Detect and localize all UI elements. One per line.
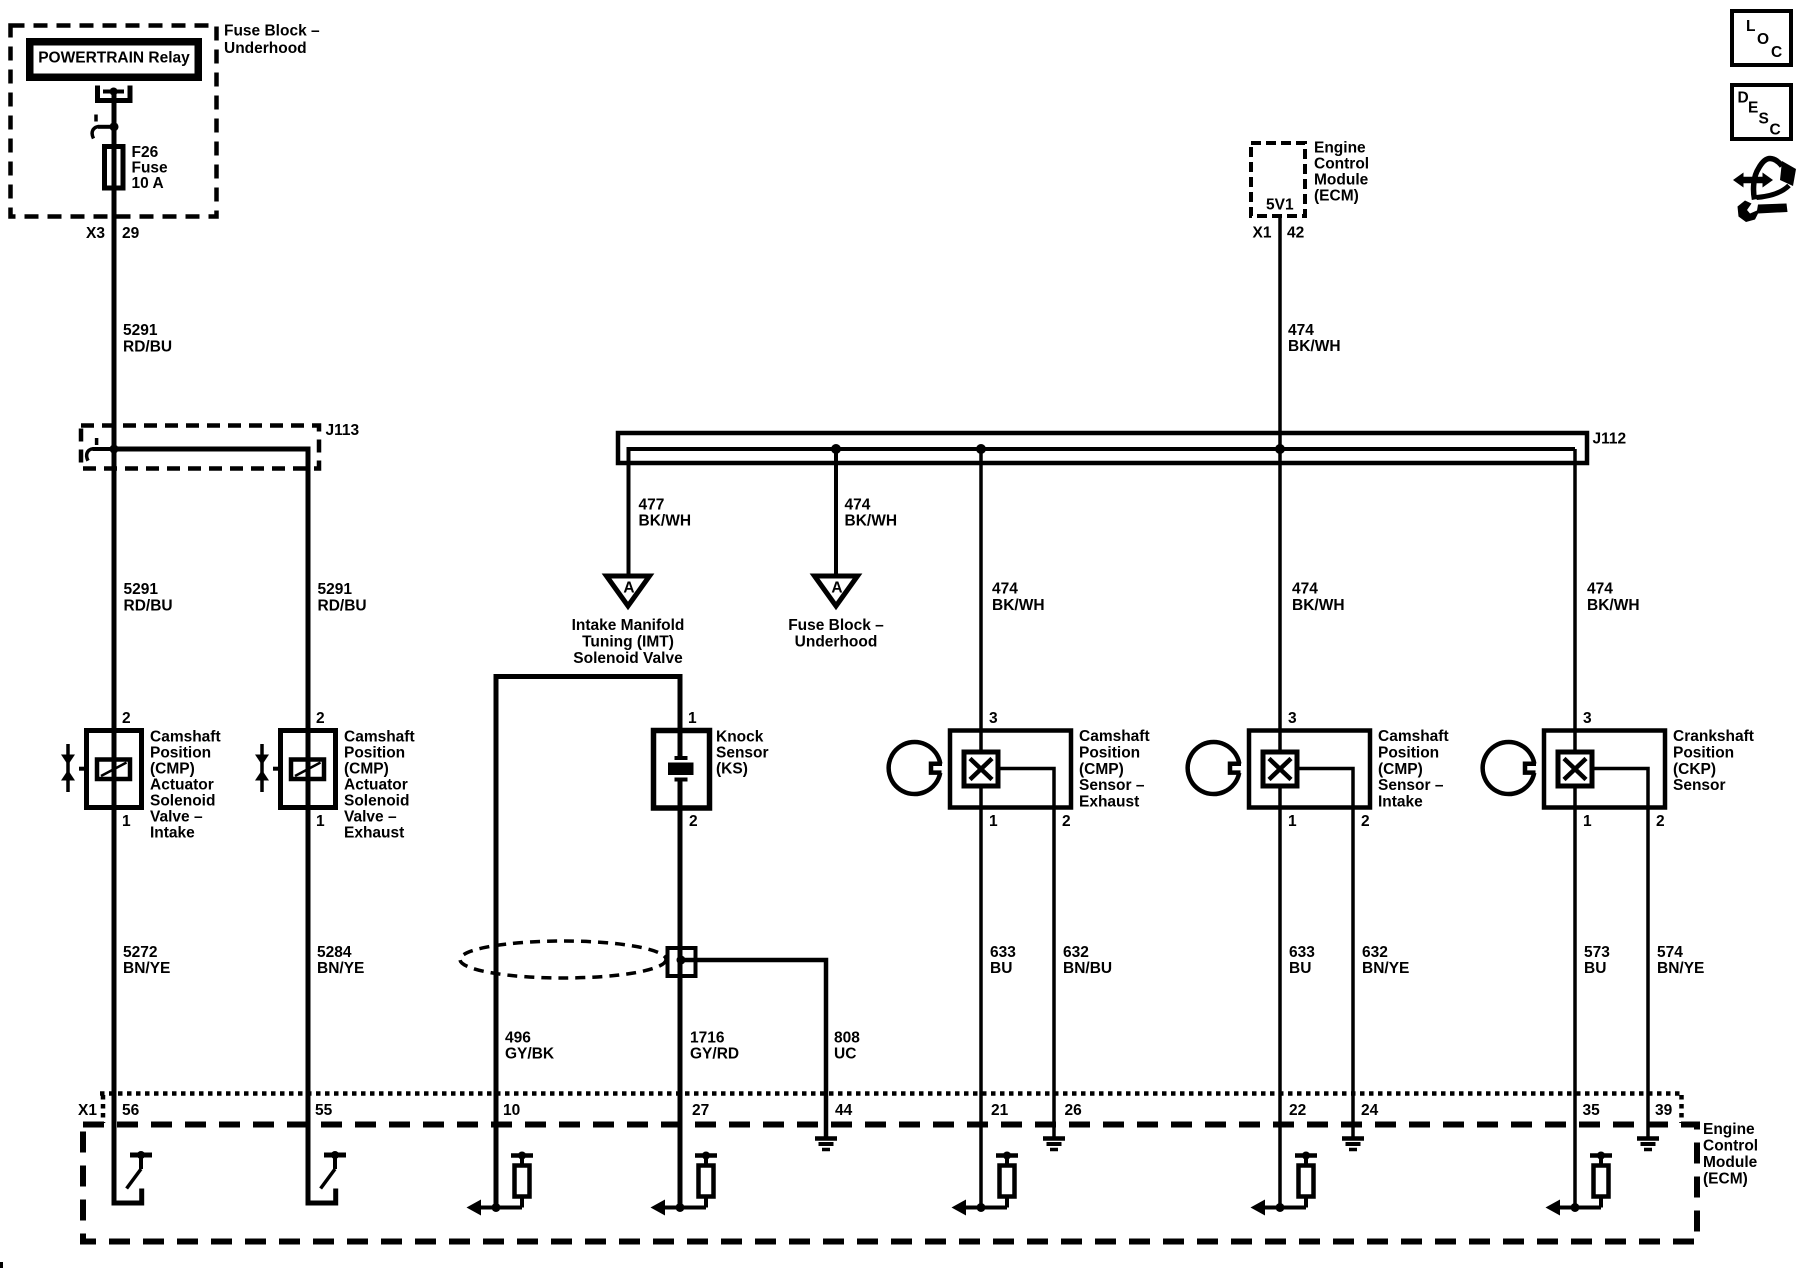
relay contact symbol: [98, 86, 131, 101]
svg-text:BN/YE: BN/YE: [1362, 960, 1409, 977]
svg-text:10: 10: [503, 1102, 520, 1119]
label: Engine Control Module (ECM) bottom: [1703, 1121, 1758, 1188]
svg-text:Sensor –: Sensor –: [1378, 777, 1444, 794]
svg-text:Actuator: Actuator: [150, 777, 214, 794]
label 474 BK/WH fuse block: [845, 497, 898, 530]
svg-text:L: L: [1746, 18, 1755, 35]
svg-text:2: 2: [689, 813, 698, 830]
relay output inline terminal: [92, 115, 118, 139]
svg-text:3: 3: [1288, 710, 1297, 727]
svg-text:Engine: Engine: [1703, 1121, 1755, 1138]
svg-text:Sensor: Sensor: [716, 745, 769, 762]
svg-text:Intake Manifold: Intake Manifold: [572, 617, 685, 634]
svg-text:(CMP): (CMP): [150, 761, 195, 778]
svg-text:5272: 5272: [123, 944, 157, 961]
svg-text:Knock: Knock: [716, 729, 764, 746]
svg-text:5284: 5284: [317, 944, 352, 961]
svg-text:Fuse Block –: Fuse Block –: [788, 617, 884, 634]
label 1716 GY/RD: [690, 1030, 739, 1063]
svg-text:BU: BU: [1584, 960, 1606, 977]
svg-text:1: 1: [1288, 813, 1297, 830]
label: Fuse Block - Underhood: [224, 23, 320, 57]
svg-text:Fuse Block –: Fuse Block –: [224, 23, 320, 40]
label 496 GY/BK: [505, 1030, 555, 1063]
CKP sensor: reluctor circle: [1483, 742, 1536, 794]
label 5291 RD/BU left branch: [124, 581, 173, 615]
drain wire 808 UC: [681, 960, 826, 1137]
svg-text:A: A: [831, 580, 842, 597]
off-page triangle A to fuse block: [815, 576, 858, 606]
svg-text:Position: Position: [1673, 745, 1734, 762]
svg-text:(CMP): (CMP): [344, 761, 389, 778]
CMP sensor exhaust: reluctor circle: [889, 742, 942, 794]
svg-text:BK/WH: BK/WH: [1288, 338, 1341, 355]
wire from relay to fuse: [112, 92, 117, 147]
svg-text:BU: BU: [990, 960, 1012, 977]
svg-text:Actuator: Actuator: [344, 777, 408, 794]
scan mark bottom left: [0, 1262, 3, 1268]
svg-text:2: 2: [1656, 813, 1665, 830]
label 5291 RD/BU top: [123, 322, 172, 356]
svg-text:633: 633: [990, 944, 1016, 961]
label 474 BK/WH exhaust sensor: [992, 581, 1045, 615]
svg-text:2: 2: [1361, 813, 1370, 830]
svg-text:Underhood: Underhood: [224, 40, 307, 57]
svg-text:BU: BU: [1289, 960, 1311, 977]
label: Engine Control Module (ECM) top: [1314, 140, 1369, 205]
svg-text:632: 632: [1063, 944, 1089, 961]
svg-text:(ECM): (ECM): [1703, 1171, 1748, 1188]
svg-text:574: 574: [1657, 944, 1683, 961]
DESC icon box: [1732, 85, 1791, 139]
label: Knock Sensor (KS): [716, 729, 769, 778]
shield ellipse: [460, 941, 666, 978]
svg-text:BK/WH: BK/WH: [845, 513, 898, 530]
wire 5291 RD/BU main feed: [112, 147, 117, 1094]
svg-text:44: 44: [835, 1102, 853, 1119]
svg-text:BK/WH: BK/WH: [639, 513, 692, 530]
svg-text:632: 632: [1362, 944, 1388, 961]
svg-text:56: 56: [122, 1102, 140, 1119]
svg-text:496: 496: [505, 1030, 531, 1047]
svg-text:2: 2: [1062, 813, 1071, 830]
svg-text:C: C: [1771, 44, 1782, 61]
svg-text:3: 3: [1583, 710, 1592, 727]
svg-text:GY/BK: GY/BK: [505, 1046, 555, 1063]
svg-text:1716: 1716: [690, 1030, 725, 1047]
LOC icon box: [1732, 11, 1791, 65]
ECM driver switch pin 55: [308, 1093, 346, 1203]
ground pin 26: [1043, 1139, 1065, 1150]
label 5284 BN/YE: [317, 944, 364, 977]
label 574 BN/YE: [1657, 944, 1704, 977]
hotlink icon (arrows and wrench): [1733, 159, 1796, 223]
svg-text:633: 633: [1289, 944, 1315, 961]
svg-text:Camshaft: Camshaft: [344, 729, 415, 746]
svg-text:BN/BU: BN/BU: [1063, 960, 1112, 977]
svg-text:GY/RD: GY/RD: [690, 1046, 739, 1063]
svg-text:Control: Control: [1703, 1138, 1758, 1155]
ground pin 24: [1342, 1139, 1364, 1150]
svg-text:(CKP): (CKP): [1673, 761, 1716, 778]
CMP sensor intake: reluctor circle: [1188, 742, 1241, 794]
svg-text:Module: Module: [1703, 1154, 1758, 1171]
svg-text:Camshaft: Camshaft: [1079, 728, 1150, 745]
svg-text:(CMP): (CMP): [1079, 761, 1124, 778]
svg-text:Exhaust: Exhaust: [1079, 794, 1139, 811]
junction dot in J113: [110, 445, 119, 454]
label 633 BU intake: [1289, 944, 1315, 977]
svg-text:(KS): (KS): [716, 761, 748, 778]
label 477 BK/WH: [639, 497, 692, 530]
svg-text:35: 35: [1583, 1102, 1601, 1119]
svg-text:Sensor –: Sensor –: [1079, 777, 1145, 794]
label 474 BK/WH main: [1288, 322, 1341, 355]
svg-text:2: 2: [122, 710, 131, 727]
label: Camshaft Position (CMP) Actuator Solenoid Valve - Exhaust: [344, 729, 415, 842]
wire 474 BK/WH drop to fuse block: [834, 449, 838, 576]
svg-text:474: 474: [1292, 581, 1318, 598]
svg-text:474: 474: [1288, 322, 1314, 339]
ECM pull-up pin 22: [1251, 1152, 1318, 1216]
svg-text:Intake: Intake: [150, 825, 195, 842]
shield drain connector: [668, 948, 696, 976]
ECM driver switch pin 56: [114, 1093, 152, 1203]
svg-text:21: 21: [991, 1102, 1009, 1119]
svg-text:55: 55: [315, 1102, 333, 1119]
svg-text:Valve –: Valve –: [344, 809, 397, 826]
svg-text:477: 477: [639, 497, 665, 514]
splice J112 bus bar: [618, 433, 1587, 463]
svg-text:RD/BU: RD/BU: [123, 339, 172, 356]
wire 5291 RD/BU branch to exhaust valve: [114, 449, 308, 1093]
label 808 UC: [834, 1030, 860, 1063]
label 632 BN/YE intake: [1362, 944, 1409, 977]
svg-text:474: 474: [1587, 581, 1613, 598]
ECM dashed box: [83, 1125, 1697, 1242]
label: Camshaft Position (CMP) Actuator Solenoid Valve - Intake: [150, 729, 221, 842]
svg-text:1: 1: [316, 813, 325, 830]
svg-text:J112: J112: [1593, 431, 1627, 448]
svg-text:POWERTRAIN Relay: POWERTRAIN Relay: [38, 50, 190, 67]
connector X3 pin 29 labels: [86, 225, 140, 242]
svg-text:Position: Position: [150, 745, 211, 762]
svg-text:X3: X3: [86, 225, 105, 242]
label 5291 RD/BU right branch: [318, 581, 367, 615]
svg-text:RD/BU: RD/BU: [124, 598, 173, 615]
fuse block underhood dashed box: [11, 26, 217, 217]
svg-text:1: 1: [688, 710, 697, 727]
wire 496 GY/BK knock sensor loop: [496, 677, 680, 1208]
label 573 BU: [1584, 944, 1610, 977]
ECM pull-up pin 10: [467, 1152, 534, 1216]
svg-text:Solenoid: Solenoid: [150, 793, 215, 810]
svg-text:Position: Position: [344, 745, 405, 762]
svg-text:Module: Module: [1314, 172, 1369, 189]
CKP sensor body: [1544, 710, 1665, 1137]
label 474 BK/WH CKP: [1587, 581, 1640, 615]
svg-text:27: 27: [692, 1102, 709, 1119]
ground pin 39: [1637, 1139, 1659, 1150]
svg-text:BK/WH: BK/WH: [992, 597, 1045, 614]
svg-text:Exhaust: Exhaust: [344, 825, 404, 842]
svg-text:5291: 5291: [123, 322, 158, 339]
svg-text:42: 42: [1287, 225, 1304, 242]
svg-text:Sensor: Sensor: [1673, 777, 1726, 794]
svg-text:26: 26: [1065, 1102, 1083, 1119]
off-page triangle A to IMT solenoid valve: [607, 576, 650, 606]
svg-text:X1: X1: [78, 1102, 97, 1119]
svg-text:O: O: [1757, 31, 1769, 48]
svg-text:J113: J113: [326, 422, 360, 439]
svg-text:2: 2: [316, 710, 325, 727]
svg-text:UC: UC: [834, 1046, 856, 1063]
ECM pull-up pin 35: [1546, 1152, 1613, 1216]
svg-text:Camshaft: Camshaft: [150, 729, 221, 746]
relay: POWERTRAIN Relay box: [26, 38, 202, 81]
label 474 BK/WH intake sensor: [1292, 581, 1345, 615]
svg-text:Control: Control: [1314, 156, 1369, 173]
svg-text:573: 573: [1584, 944, 1610, 961]
label 632 BN/BU exhaust: [1063, 944, 1112, 977]
label: Crankshaft Position (CKP) Sensor: [1673, 728, 1754, 794]
svg-text:5291: 5291: [318, 581, 353, 598]
svg-text:BN/YE: BN/YE: [123, 960, 170, 977]
svg-text:E: E: [1748, 100, 1758, 117]
inline terminal hook in J113: [87, 438, 114, 461]
svg-text:S: S: [1759, 111, 1769, 128]
svg-text:474: 474: [845, 497, 871, 514]
svg-text:X1: X1: [1253, 225, 1272, 242]
ECM pull-up pin 21: [952, 1152, 1019, 1216]
svg-text:Camshaft: Camshaft: [1378, 728, 1449, 745]
svg-text:Underhood: Underhood: [795, 634, 878, 651]
CMP sensor exhaust body: [950, 710, 1071, 1137]
svg-text:A: A: [623, 580, 634, 597]
svg-text:5291: 5291: [124, 581, 159, 598]
wire 474 BK/WH drop to CMP exhaust sensor: [979, 449, 983, 1208]
CMP actuator solenoid valve - intake: [61, 710, 142, 830]
svg-text:Intake: Intake: [1378, 794, 1423, 811]
svg-text:24: 24: [1361, 1102, 1379, 1119]
wire 474 BK/WH from ECM: [1278, 216, 1282, 1208]
svg-text:F26: F26: [132, 144, 159, 161]
svg-text:BK/WH: BK/WH: [1587, 597, 1640, 614]
svg-text:1: 1: [989, 813, 998, 830]
svg-text:Solenoid Valve: Solenoid Valve: [573, 650, 683, 667]
svg-text:22: 22: [1289, 1102, 1306, 1119]
ECM 5V1 dashed box: [1251, 143, 1305, 216]
svg-text:(ECM): (ECM): [1314, 188, 1359, 205]
svg-text:808: 808: [834, 1030, 860, 1047]
knock sensor KS: [654, 710, 710, 830]
svg-text:Solenoid: Solenoid: [344, 793, 409, 810]
label 5272 BN/YE: [123, 944, 170, 977]
svg-text:Crankshaft: Crankshaft: [1673, 728, 1754, 745]
CMP actuator solenoid valve - exhaust: [255, 710, 336, 830]
label F26 Fuse 10 A: [132, 144, 169, 192]
svg-text:Position: Position: [1378, 745, 1439, 762]
svg-text:Fuse: Fuse: [132, 160, 169, 177]
svg-text:5V1: 5V1: [1266, 197, 1294, 214]
label: Fuse Block - Underhood (triangle): [788, 617, 884, 651]
label: Camshaft Position (CMP) Sensor - Intake: [1378, 728, 1449, 811]
svg-text:RD/BU: RD/BU: [318, 598, 367, 615]
ECM pull-up pin 27: [651, 1152, 718, 1216]
splice pack J113 dashed box: [81, 426, 319, 469]
svg-text:1: 1: [1583, 813, 1592, 830]
svg-text:Position: Position: [1079, 745, 1140, 762]
ECM pin number labels: [122, 1102, 1673, 1119]
CMP sensor intake body: [1249, 710, 1370, 1137]
ECM X1 connector dotted line: [100, 1094, 1682, 1124]
svg-text:(CMP): (CMP): [1378, 761, 1423, 778]
label 633 BU exhaust: [990, 944, 1016, 977]
svg-text:C: C: [1770, 122, 1781, 139]
wire 1716 GY/RD: [678, 780, 683, 1208]
svg-text:BK/WH: BK/WH: [1292, 597, 1345, 614]
svg-text:Valve –: Valve –: [150, 809, 203, 826]
svg-text:3: 3: [989, 710, 998, 727]
ground pin 44: [815, 1139, 837, 1150]
svg-text:1: 1: [122, 813, 131, 830]
wire 477 BK/WH drop: [627, 449, 631, 576]
svg-text:10 A: 10 A: [132, 175, 164, 192]
label: Camshaft Position (CMP) Sensor - Exhaust: [1079, 728, 1150, 811]
svg-text:BN/YE: BN/YE: [317, 960, 364, 977]
svg-text:39: 39: [1655, 1102, 1673, 1119]
connector X1 pin 42 labels: [1253, 225, 1305, 242]
fuse F26 10A: [105, 147, 124, 189]
svg-text:474: 474: [992, 581, 1018, 598]
label: Intake Manifold Tuning (IMT) Solenoid Valve: [572, 617, 685, 667]
wire 474 BK/WH drop to CKP sensor: [1573, 449, 1577, 1208]
svg-text:Engine: Engine: [1314, 140, 1366, 157]
svg-text:29: 29: [122, 225, 140, 242]
svg-text:BN/YE: BN/YE: [1657, 960, 1704, 977]
svg-text:Tuning (IMT): Tuning (IMT): [582, 634, 674, 651]
